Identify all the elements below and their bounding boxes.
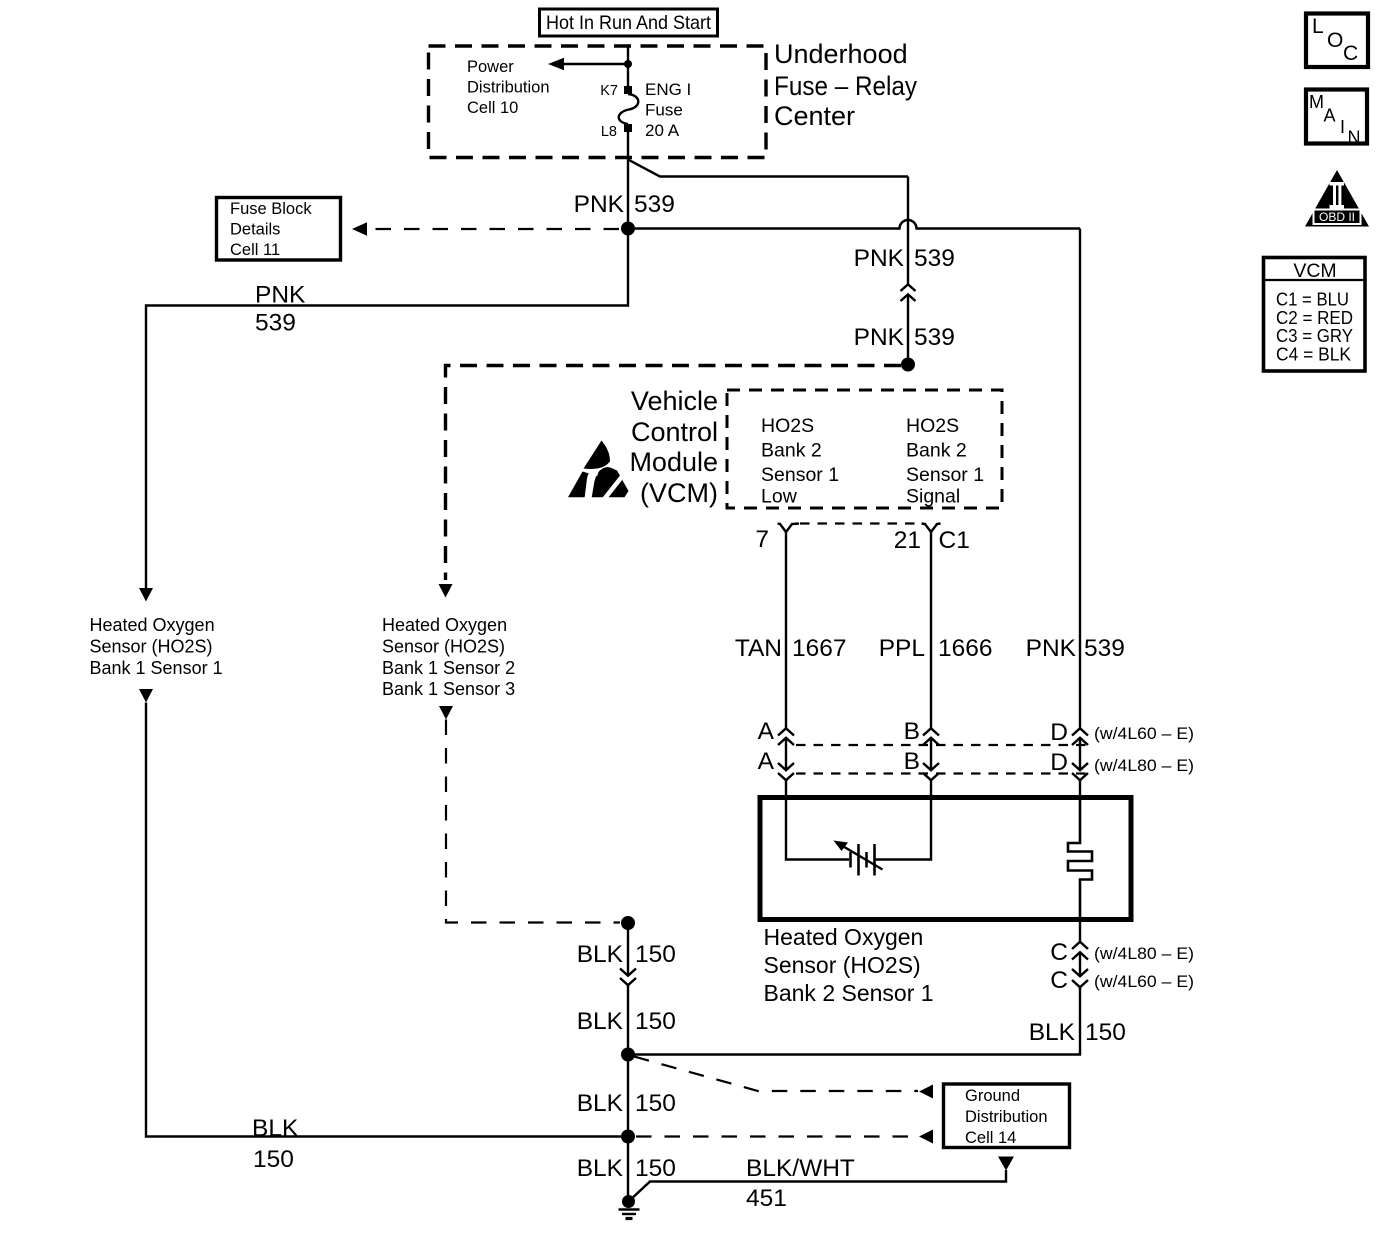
svg-text:Control: Control bbox=[631, 417, 718, 447]
svg-text:B: B bbox=[904, 748, 920, 775]
connector face dashed line 4L80 bbox=[796, 772, 1086, 774]
inline connector pin C (w/4L80-E) bbox=[1072, 942, 1088, 976]
svg-text:Distribution: Distribution bbox=[965, 1108, 1048, 1126]
svg-text:VCM: VCM bbox=[1293, 260, 1336, 282]
wire: dashed BLK 150 return to splice bbox=[446, 720, 620, 923]
page reference symbol MAIN bbox=[1306, 90, 1367, 148]
wire: BLK 150 to ground bbox=[627, 1137, 629, 1202]
splice break symbol on BLK 150 bbox=[620, 969, 636, 986]
arrow: BLK 150 return from HO2S B1S2/3 bbox=[439, 706, 453, 720]
svg-text:PNK: PNK bbox=[1026, 635, 1077, 662]
svg-text:150: 150 bbox=[635, 1008, 676, 1035]
svg-text:A: A bbox=[1324, 106, 1336, 126]
svg-text:I: I bbox=[1340, 117, 1345, 137]
wire: PNK 539 branch to left HO2S B1S1 bbox=[146, 229, 628, 588]
svg-text:BLK: BLK bbox=[577, 1090, 624, 1117]
svg-text:20 A: 20 A bbox=[645, 121, 680, 140]
svg-text:Underhood: Underhood bbox=[774, 39, 908, 69]
svg-text:150: 150 bbox=[635, 941, 676, 968]
svg-text:K7: K7 bbox=[600, 83, 618, 99]
wire: BLK/WHT 451 to Ground Distribution bbox=[629, 1170, 1006, 1201]
svg-text:21: 21 bbox=[894, 527, 921, 554]
svg-text:150: 150 bbox=[1085, 1019, 1126, 1046]
svg-text:Fuse – Relay: Fuse – Relay bbox=[774, 71, 917, 101]
svg-text:C1: C1 bbox=[939, 527, 970, 554]
ground G103 bbox=[619, 1210, 640, 1219]
svg-text:150: 150 bbox=[253, 1146, 294, 1173]
svg-text:OBD II: OBD II bbox=[1319, 210, 1355, 224]
arrow to HO2S Bank 1 Sensor 1 bbox=[139, 588, 153, 602]
label: TAN 1667 bbox=[735, 635, 847, 662]
node: BLK 150 splice S2 bbox=[621, 1048, 635, 1062]
svg-text:BLK: BLK bbox=[252, 1115, 299, 1142]
svg-text:C4 = BLK: C4 = BLK bbox=[1276, 345, 1351, 365]
sensing element inside HO2S bbox=[1068, 797, 1092, 920]
svg-text:539: 539 bbox=[914, 245, 955, 272]
svg-text:L8: L8 bbox=[601, 124, 617, 140]
label: BLK 150 (left return) bbox=[252, 1115, 299, 1173]
power source box: Hot In Run And Start bbox=[540, 9, 718, 36]
reference box: Ground Distribution Cell 14 bbox=[944, 1084, 1070, 1148]
wire: riser continues to VCM bbox=[907, 295, 909, 365]
svg-text:PNK: PNK bbox=[574, 191, 625, 218]
svg-text:Bank 2: Bank 2 bbox=[906, 440, 967, 462]
svg-text:Sensor 1: Sensor 1 bbox=[906, 464, 984, 486]
node: ground splice bbox=[622, 1195, 635, 1208]
wire: sensor ground lead bbox=[1079, 920, 1081, 942]
svg-text:150: 150 bbox=[635, 1090, 676, 1117]
ESD sensitive symbol bbox=[568, 441, 630, 506]
value label: ENG I Fuse 20 A bbox=[645, 80, 691, 140]
wire: branch to right riser bbox=[628, 160, 908, 177]
wire: fuse output down bbox=[627, 132, 629, 230]
svg-text:HO2S: HO2S bbox=[906, 415, 959, 437]
label: BLK 150 (second) bbox=[577, 1008, 676, 1035]
wire: TAN 1667 bbox=[785, 532, 787, 729]
component box: Heated Oxygen Sensor (HO2S) Bank 2 Sensor 1 bbox=[760, 798, 1131, 920]
arrow: BLK 150 return from HO2S B1S1 bbox=[139, 689, 153, 703]
wire: dashed reference to Ground Distribution (lower) bbox=[636, 1135, 918, 1137]
svg-text:7: 7 bbox=[755, 526, 769, 553]
svg-text:PPL: PPL bbox=[879, 635, 925, 662]
reference box: Fuse Block Details Cell 11 bbox=[217, 198, 341, 261]
label: BLK 150 (upper) bbox=[577, 941, 676, 968]
svg-text:Module: Module bbox=[629, 447, 718, 477]
node: BLK 150 splice S1 bbox=[621, 916, 635, 930]
svg-text:Distribution: Distribution bbox=[467, 79, 550, 97]
svg-text:(w/4L80 – E): (w/4L80 – E) bbox=[1094, 756, 1194, 775]
svg-text:Sensor (HO2S): Sensor (HO2S) bbox=[382, 637, 505, 657]
arrow to HO2S Bank 1 Sensor 2/3 bbox=[439, 584, 453, 598]
svg-text:C3 = GRY: C3 = GRY bbox=[1276, 326, 1353, 346]
svg-text:Heated Oxygen: Heated Oxygen bbox=[382, 615, 507, 635]
svg-text:C2 = RED: C2 = RED bbox=[1276, 308, 1353, 328]
svg-text:Bank 1 Sensor 1: Bank 1 Sensor 1 bbox=[90, 658, 223, 678]
svg-text:Bank 2 Sensor 1: Bank 2 Sensor 1 bbox=[764, 980, 934, 1006]
node: BLK 150 splice S3 bbox=[621, 1130, 635, 1144]
wire: BLK 150 left return bbox=[146, 703, 621, 1137]
svg-text:HO2S: HO2S bbox=[761, 415, 814, 437]
wire: heater return inside sensor bbox=[876, 797, 932, 860]
svg-text:Cell 14: Cell 14 bbox=[965, 1129, 1016, 1147]
svg-text:BLK: BLK bbox=[577, 1155, 624, 1182]
wire: BLK 150 from sensor to splice bbox=[635, 987, 1080, 1055]
svg-text:539: 539 bbox=[634, 191, 675, 218]
svg-text:(VCM): (VCM) bbox=[640, 478, 718, 508]
wire: dashed reference to Ground Distribution (upper) bbox=[634, 1057, 918, 1092]
label: BLK/WHT 451 bbox=[746, 1155, 855, 1212]
label: PNK 539 (right riser lower) bbox=[854, 324, 955, 351]
svg-text:Hot In Run And Start: Hot In Run And Start bbox=[546, 12, 712, 34]
svg-text:Center: Center bbox=[774, 101, 855, 131]
label: PNK 539 (right riser upper) bbox=[854, 245, 955, 272]
svg-text:(w/4L60 – E): (w/4L60 – E) bbox=[1094, 972, 1194, 991]
heater element (variable) inside HO2S bbox=[834, 841, 883, 876]
svg-text:Low: Low bbox=[761, 486, 798, 508]
label: PNK 539 (left branch) bbox=[255, 282, 306, 337]
wire: PPL 1666 bbox=[930, 532, 932, 729]
svg-text:Vehicle: Vehicle bbox=[631, 386, 718, 416]
wire: arrow to Power Distribution bbox=[564, 63, 628, 65]
svg-text:BLK/WHT: BLK/WHT bbox=[746, 1155, 855, 1182]
svg-text:B: B bbox=[904, 718, 920, 745]
svg-text:C1 = BLU: C1 = BLU bbox=[1276, 290, 1349, 310]
svg-text:A: A bbox=[758, 748, 775, 775]
node: PNK 539 entry at VCM boundary bbox=[901, 358, 915, 372]
label: Power Distribution Cell 10 bbox=[467, 58, 550, 117]
svg-text:TAN: TAN bbox=[735, 635, 782, 662]
page reference symbol LOC bbox=[1306, 14, 1368, 68]
wire: heater feed inside sensor bbox=[786, 797, 849, 860]
svg-text:Bank 1 Sensor 2: Bank 1 Sensor 2 bbox=[382, 658, 515, 678]
svg-text:(w/4L60 – E): (w/4L60 – E) bbox=[1094, 724, 1194, 743]
svg-text:Ground: Ground bbox=[965, 1087, 1020, 1105]
label: BLK 150 (sensor return) bbox=[1029, 1019, 1126, 1046]
wire: far right riser PNK 539 down to connector D bbox=[1079, 229, 1081, 729]
connector C1 pin 21 bbox=[922, 524, 941, 533]
svg-text:1666: 1666 bbox=[938, 635, 993, 662]
svg-text:PNK: PNK bbox=[255, 282, 306, 309]
wire: right riser PNK 539 upper bbox=[907, 177, 909, 285]
svg-text:(w/4L80 – E): (w/4L80 – E) bbox=[1094, 944, 1194, 963]
wire: battery feed into fuse bbox=[627, 45, 629, 86]
svg-text:PNK: PNK bbox=[854, 245, 905, 272]
connector face dashed line 4L60 bbox=[796, 744, 1086, 746]
label: PNK 539 (top) bbox=[574, 191, 675, 218]
wire: PNK 539 over-crossing hop to far right riser bbox=[635, 220, 1080, 229]
splice break symbol on PNK 539 riser bbox=[901, 284, 916, 301]
svg-text:D: D bbox=[1050, 719, 1068, 746]
label: PPL 1666 bbox=[879, 635, 993, 662]
svg-text:A: A bbox=[758, 718, 775, 745]
node: fuse feed junction bbox=[624, 60, 632, 68]
VCM boundary dashed (top and left) bbox=[446, 366, 902, 581]
svg-text:Sensor 1: Sensor 1 bbox=[761, 464, 839, 486]
svg-text:C: C bbox=[1050, 939, 1068, 966]
wire: dashed reference to Fuse Block Details bbox=[368, 228, 619, 230]
svg-text:Sensor (HO2S): Sensor (HO2S) bbox=[90, 637, 213, 657]
node: PNK splice at fuse output bbox=[621, 222, 635, 236]
label: BLK 150 (third) bbox=[577, 1090, 676, 1117]
svg-text:BLK: BLK bbox=[577, 941, 624, 968]
svg-text:1667: 1667 bbox=[792, 635, 847, 662]
svg-text:Power: Power bbox=[467, 58, 514, 76]
connector face dashed line bbox=[800, 522, 920, 524]
inline connector pin C (w/4L60-E) bbox=[1072, 969, 1088, 987]
svg-text:BLK: BLK bbox=[1029, 1019, 1076, 1046]
svg-text:Details: Details bbox=[230, 221, 280, 239]
inline connector row w/4L60-E : pins A B D bbox=[778, 728, 1088, 770]
svg-text:N: N bbox=[1348, 128, 1361, 148]
svg-text:Cell 11: Cell 11 bbox=[230, 241, 280, 259]
svg-text:O: O bbox=[1327, 29, 1343, 52]
svg-text:Signal: Signal bbox=[906, 486, 960, 508]
label: Heated Oxygen Sensor (HO2S) Bank 1 Sensor 2 / Bank 1 Sensor 3 bbox=[382, 615, 515, 699]
svg-text:L: L bbox=[1312, 15, 1324, 38]
label: Heated Oxygen Sensor (HO2S) Bank 1 Sensor 1 bbox=[90, 615, 223, 678]
VCM pins dashed box: HO2S Bank 2 Sensor 1 Low / Signal bbox=[727, 390, 1002, 508]
label: Underhood Fuse-Relay Center bbox=[774, 39, 917, 131]
svg-text:Bank 2: Bank 2 bbox=[761, 440, 822, 462]
svg-text:C: C bbox=[1050, 967, 1068, 994]
svg-text:Cell 10: Cell 10 bbox=[467, 99, 518, 117]
fuse F1 ENG I 20 A bbox=[619, 86, 639, 132]
svg-text:C: C bbox=[1343, 42, 1358, 65]
Underhood Fuse-Relay Center dashed enclosure bbox=[429, 46, 767, 158]
label: BLK 150 (bottom) bbox=[577, 1155, 676, 1182]
svg-text:Heated Oxygen: Heated Oxygen bbox=[90, 615, 215, 635]
svg-text:ENG I: ENG I bbox=[645, 80, 691, 99]
label: Vehicle Control Module (VCM) bbox=[629, 386, 718, 508]
svg-text:539: 539 bbox=[255, 310, 296, 337]
svg-text:Fuse Block: Fuse Block bbox=[230, 200, 312, 218]
svg-text:Heated Oxygen: Heated Oxygen bbox=[764, 924, 924, 950]
label: PNK 539 (far right riser) bbox=[1026, 635, 1125, 662]
VCM connector legend table bbox=[1264, 258, 1366, 372]
svg-text:D: D bbox=[1050, 749, 1068, 776]
svg-text:150: 150 bbox=[635, 1155, 676, 1182]
inline connector row w/4L80-E : pins A B D bbox=[778, 763, 1088, 797]
label: Heated Oxygen Sensor (HO2S) Bank 2 Sensor 1 bbox=[764, 924, 934, 1006]
svg-text:BLK: BLK bbox=[577, 1008, 624, 1035]
svg-text:451: 451 bbox=[746, 1185, 787, 1212]
svg-text:Fuse: Fuse bbox=[645, 101, 683, 120]
wire: BLK 150 down from splice bbox=[627, 923, 629, 976]
svg-text:539: 539 bbox=[914, 324, 955, 351]
svg-text:Bank 1 Sensor 3: Bank 1 Sensor 3 bbox=[382, 679, 515, 699]
wire: BLK 150 to splice S2 bbox=[627, 985, 629, 1137]
svg-text:PNK: PNK bbox=[854, 324, 905, 351]
svg-text:M: M bbox=[1309, 92, 1324, 112]
connector C1 pin 7 bbox=[778, 524, 800, 533]
svg-text:539: 539 bbox=[1084, 635, 1125, 662]
svg-text:Sensor (HO2S): Sensor (HO2S) bbox=[764, 952, 921, 978]
OBD II symbol bbox=[1305, 170, 1369, 227]
